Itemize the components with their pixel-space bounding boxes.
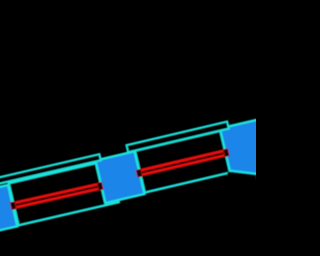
car 1 red rod: [13, 184, 101, 208]
car 3 black body masking blue block bottom-right: [214, 172, 257, 210]
car 1 rod left cap: [10, 182, 103, 209]
right blue coupler block: [220, 117, 280, 182]
car 1 roof lid: [0, 154, 101, 184]
car 2 rod left cap: [136, 149, 229, 177]
car 2 red rod: [138, 150, 226, 175]
car 2 roof lid: [126, 121, 228, 152]
car 2 rod right cap: [223, 149, 229, 157]
middle blue coupler block: [95, 151, 144, 203]
car 3 roof top edge line (descending right over the crest): [228, 170, 256, 173]
car 1 rod right cap: [97, 182, 103, 190]
left blue coupler block: [0, 185, 17, 235]
car 1 body box: [9, 160, 119, 225]
car 2 body box: [135, 127, 245, 192]
